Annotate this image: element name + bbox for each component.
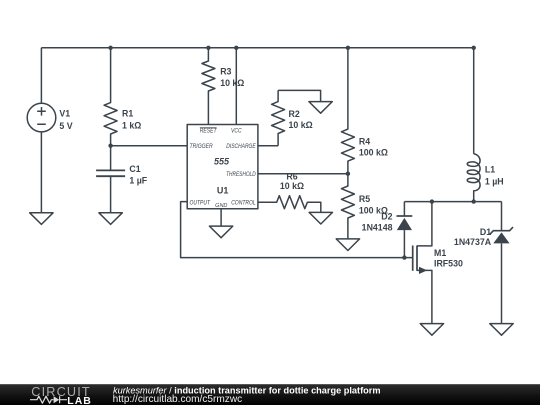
svg-text:TRIGGER: TRIGGER bbox=[190, 143, 214, 150]
svg-text:D2: D2 bbox=[381, 212, 392, 222]
svg-text:GND: GND bbox=[215, 203, 227, 209]
svg-text:10 kΩ: 10 kΩ bbox=[280, 181, 304, 191]
wire drain rail bbox=[404, 201, 501, 203]
svg-text:R4: R4 bbox=[359, 136, 370, 146]
IC U1 555 bbox=[187, 125, 258, 209]
resistor R1 bbox=[104, 48, 117, 146]
wire discharge bbox=[258, 145, 278, 147]
resistor R5 bbox=[341, 174, 354, 239]
svg-text:OUTPUT: OUTPUT bbox=[190, 199, 211, 206]
svg-text:RESET: RESET bbox=[200, 127, 218, 134]
svg-text:1N4148: 1N4148 bbox=[362, 223, 393, 233]
svg-text:D1: D1 bbox=[480, 227, 491, 237]
wire trigger bbox=[111, 145, 188, 147]
svg-text:1 kΩ: 1 kΩ bbox=[122, 120, 141, 130]
node top rail VCC bbox=[234, 46, 238, 50]
diode D2 bbox=[397, 216, 413, 258]
svg-text:100 kΩ: 100 kΩ bbox=[359, 148, 388, 158]
svg-text:CONTROL: CONTROL bbox=[231, 199, 256, 206]
capacitor C1 bbox=[96, 170, 125, 212]
ground (U1 GND) bbox=[209, 226, 232, 238]
resistor R6 bbox=[258, 196, 321, 213]
wire D1 branch bbox=[501, 202, 503, 231]
svg-text:1 µH: 1 µH bbox=[485, 177, 504, 187]
svg-text:5 V: 5 V bbox=[59, 121, 72, 131]
wire output to gate bbox=[181, 202, 412, 258]
node D2 anode gate bbox=[402, 255, 406, 259]
svg-text:555: 555 bbox=[214, 156, 230, 166]
node R1 C1 trigger bbox=[108, 144, 112, 148]
node L1 bottom bbox=[472, 199, 476, 203]
wire R2 to ground bbox=[278, 90, 321, 101]
wire VCC bbox=[235, 48, 237, 125]
node top rail R4 bbox=[346, 46, 350, 50]
svg-text:1 µF: 1 µF bbox=[129, 176, 147, 186]
svg-text:R5: R5 bbox=[359, 194, 370, 204]
svg-text:V1: V1 bbox=[59, 109, 70, 119]
svg-text:R1: R1 bbox=[122, 109, 133, 119]
pin label RESET bbox=[200, 127, 218, 134]
resistor R4 bbox=[341, 48, 354, 174]
ground (D1) bbox=[490, 324, 513, 336]
wire threshold bbox=[258, 173, 348, 175]
resistor R2 bbox=[272, 90, 285, 145]
logo icon bbox=[30, 396, 67, 403]
wire D2 cathode bbox=[403, 202, 405, 216]
svg-text:THRESHOLD: THRESHOLD bbox=[226, 171, 256, 178]
voltage source V1 bbox=[27, 48, 56, 213]
wire top rail bbox=[41, 47, 473, 49]
svg-text:M1: M1 bbox=[434, 248, 446, 258]
wire L1 top bbox=[473, 48, 475, 154]
ground (M1) bbox=[420, 324, 443, 336]
wire U1 GND pin bbox=[220, 209, 222, 226]
svg-text:U1: U1 bbox=[217, 186, 229, 196]
node threshold R4 R5 bbox=[346, 172, 350, 176]
svg-text:R6: R6 bbox=[286, 172, 297, 182]
node top right corner bbox=[472, 46, 476, 50]
ground (C1) bbox=[99, 213, 122, 225]
svg-text:1N4737A: 1N4737A bbox=[454, 237, 492, 247]
ground (R5) bbox=[336, 239, 359, 251]
ground (V1) bbox=[30, 213, 53, 225]
ground (R6) bbox=[309, 212, 332, 224]
footer bar bbox=[0, 384, 540, 405]
node M1 drain bbox=[430, 199, 434, 203]
svg-text:10 kΩ: 10 kΩ bbox=[220, 78, 244, 88]
transistor M1 bbox=[413, 202, 432, 324]
svg-text:LAB: LAB bbox=[67, 395, 92, 405]
ground (R2) bbox=[309, 102, 332, 114]
svg-text:10 kΩ: 10 kΩ bbox=[289, 120, 313, 130]
svg-text:http://circuitlab.com/c5rmzwc: http://circuitlab.com/c5rmzwc bbox=[113, 394, 243, 405]
svg-text:C1: C1 bbox=[129, 164, 140, 174]
diode D1 zener bbox=[490, 227, 513, 324]
wire R1 to C1 bbox=[110, 146, 112, 171]
inductor L1 bbox=[467, 154, 480, 202]
node top rail R1 bbox=[108, 46, 112, 50]
node top rail R3 bbox=[206, 46, 210, 50]
svg-text:IRF530: IRF530 bbox=[434, 259, 463, 269]
svg-text:R2: R2 bbox=[289, 109, 300, 119]
svg-text:DISCHARGE: DISCHARGE bbox=[226, 143, 256, 150]
svg-text:VCC: VCC bbox=[231, 127, 242, 134]
svg-text:L1: L1 bbox=[485, 165, 495, 175]
svg-text:R3: R3 bbox=[220, 66, 231, 76]
resistor R3 bbox=[202, 48, 215, 125]
